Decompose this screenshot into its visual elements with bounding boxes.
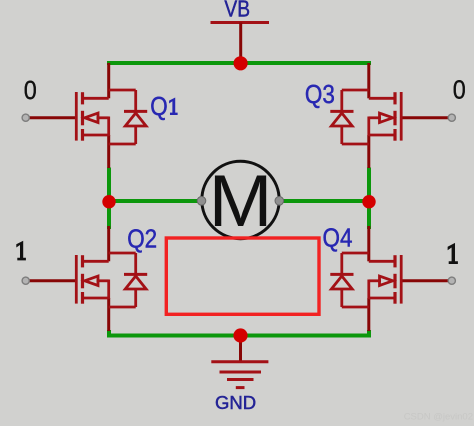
svg-text:Q: Q [150,93,167,122]
svg-text:0: 0 [24,77,37,105]
svg-text:M: M [209,160,273,242]
svg-text:CSDN @jevin02: CSDN @jevin02 [404,412,473,423]
svg-text:Q4: Q4 [323,224,353,253]
svg-text:GND: GND [215,392,256,413]
svg-text:Q2: Q2 [127,225,157,254]
svg-text:0: 0 [453,77,466,105]
svg-text:VB: VB [224,0,250,22]
svg-text:Q3: Q3 [305,81,335,110]
